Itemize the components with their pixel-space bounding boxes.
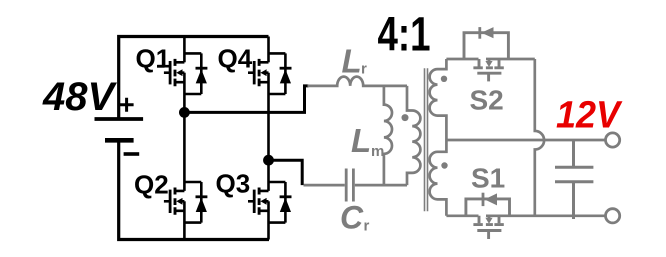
label S1 bbox=[492, 185, 501, 188]
secondary top polarity dot bbox=[441, 76, 447, 82]
wire: input negative rail / bottom rail bbox=[119, 142, 269, 240]
transistor Q4 with body diode bbox=[248, 37, 292, 161]
transformer T1 primary winding bbox=[407, 86, 420, 185]
wire: node A to resonant tank top bbox=[184, 86, 308, 113]
capacitor Cr bbox=[346, 169, 353, 202]
transistor Q2 with body diode bbox=[164, 112, 208, 239]
wire: output negative rail bbox=[446, 214, 605, 217]
battery V1 short plate bbox=[105, 138, 134, 143]
svg-text:r: r bbox=[361, 61, 367, 78]
wire: secondary top branch to S2 bbox=[446, 58, 534, 61]
wire: center tap to output positive bbox=[446, 139, 605, 142]
transistor Q1 with body diode bbox=[164, 37, 208, 113]
label Q1 bbox=[157, 65, 165, 68]
svg-text:L: L bbox=[351, 122, 371, 159]
wire: tank bottom left segment bbox=[304, 184, 345, 187]
wire: node B to resonant tank bottom bbox=[269, 160, 303, 185]
svg-text:12V: 12V bbox=[556, 94, 623, 136]
transformer secondary top winding bbox=[430, 59, 447, 140]
svg-text:Q3: Q3 bbox=[216, 169, 251, 199]
svg-text:4:1: 4:1 bbox=[378, 8, 431, 62]
output capacitor bbox=[555, 140, 593, 219]
svg-text:S1: S1 bbox=[471, 162, 505, 193]
terminal: output negative bbox=[606, 209, 620, 223]
inductor Lm (magnetizing) bbox=[384, 86, 392, 185]
svg-text:Q1: Q1 bbox=[136, 44, 171, 74]
transistor Q3 with body diode bbox=[248, 160, 292, 239]
transformer core bbox=[425, 68, 428, 211]
synchronous rectifier S1 with body diode bbox=[466, 193, 510, 239]
node A junction dot bbox=[179, 107, 190, 118]
transformer secondary bottom winding bbox=[430, 140, 447, 216]
svg-text:r: r bbox=[364, 218, 370, 235]
node B junction dot bbox=[263, 155, 274, 166]
battery minus marking bbox=[124, 152, 140, 156]
battery V1 long plate bbox=[95, 117, 144, 121]
svg-text:48V: 48V bbox=[42, 75, 117, 119]
secondary bottom polarity dot bbox=[441, 162, 447, 168]
label 4:1 (turns ratio) bbox=[418, 47, 430, 50]
synchronous rectifier S2 with body diode bbox=[464, 27, 508, 81]
wire: tank bottom right segment bbox=[355, 184, 407, 187]
wire: input positive rail bbox=[119, 37, 269, 120]
terminal: output positive bbox=[606, 133, 620, 147]
battery plus marking bbox=[120, 98, 134, 112]
svg-text:S2: S2 bbox=[470, 84, 504, 115]
svg-text:L: L bbox=[342, 42, 362, 79]
svg-text:m: m bbox=[371, 143, 384, 160]
inductor Lr and tank top wire bbox=[308, 77, 408, 86]
primary polarity dot bbox=[402, 114, 409, 121]
svg-text:Q2: Q2 bbox=[134, 170, 169, 200]
svg-text:Q4: Q4 bbox=[218, 43, 253, 73]
wire: rectifier bus with hop over center tap bbox=[535, 59, 544, 216]
svg-text:C: C bbox=[340, 200, 364, 236]
label 12V bbox=[558, 124, 572, 127]
